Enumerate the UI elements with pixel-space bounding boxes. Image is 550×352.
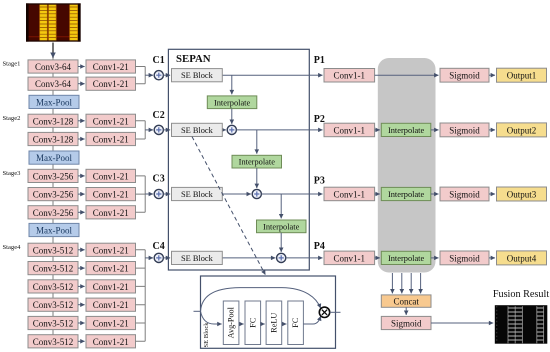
wire inset bypass curve <box>201 288 321 312</box>
svg-text:Sigmoid: Sigmoid <box>449 253 480 263</box>
arrow Conv3-256 to Conv1-21 (stage3 row2) <box>78 193 85 195</box>
svg-text:Output2: Output2 <box>507 125 537 135</box>
svg-text:Conv1-21: Conv1-21 <box>93 337 129 347</box>
arrow Conv3-128 to Conv1-21 (stage2 row2) <box>78 138 85 140</box>
dashed wire SE Block zoom-in <box>192 137 265 275</box>
sigmoid block (P3) <box>440 187 489 201</box>
svg-text:FC: FC <box>248 317 257 328</box>
inset block FC 2 <box>245 301 261 345</box>
wire bracket stage4 <box>136 250 146 341</box>
svg-text:Conv3-512: Conv3-512 <box>33 264 74 274</box>
arrow Conv1-1 to Interpolate (P4) <box>375 257 380 259</box>
svg-text:P3: P3 <box>314 175 325 186</box>
node C2 (add) <box>154 125 163 134</box>
conv block Conv3-256 (stage3 row3) <box>28 206 78 219</box>
svg-text:Sigmoid: Sigmoid <box>449 125 480 135</box>
arrow P4 to Conv1-1 <box>309 257 322 259</box>
svg-text:ReLU: ReLU <box>269 313 278 333</box>
svg-text:Sigmoid: Sigmoid <box>449 190 480 200</box>
svg-text:Conv1-21: Conv1-21 <box>93 282 129 292</box>
fusion sigmoid block <box>381 316 431 329</box>
arrow C2 to SE Block <box>163 129 170 131</box>
conv block Conv3-64 (stage1 row2) <box>28 77 78 90</box>
arrow bracket to C4 node <box>145 257 153 259</box>
svg-text:Conv3-512: Conv3-512 <box>33 245 74 255</box>
node C1 (add) <box>154 71 163 80</box>
arrow Interpolate to Sigmoid (P4) <box>431 257 439 259</box>
svg-text:Conv1-21: Conv1-21 <box>93 300 129 310</box>
svg-text:SEPAN: SEPAN <box>176 53 211 65</box>
arrow inset ReLU to next <box>282 323 287 325</box>
node add3 (SEPAN) <box>252 189 261 198</box>
output block Output3 <box>497 187 547 201</box>
arrow image to Stage1 <box>52 43 54 58</box>
sigmoid block (P4) <box>440 251 489 265</box>
conv block Conv1-21 (stage1 row2) <box>86 77 136 90</box>
conv block Conv3-128 (stage2 row2) <box>28 132 78 145</box>
arrow inset FC to next <box>261 323 265 325</box>
conv block Conv3-512 (stage4 row6) <box>28 335 78 348</box>
svg-text:Conv1-21: Conv1-21 <box>93 171 129 181</box>
svg-text:Conv1-1: Conv1-1 <box>334 190 366 200</box>
pool block Max-Pool 1 <box>29 95 79 108</box>
svg-text:Avg-Pool: Avg-Pool <box>227 306 236 338</box>
svg-text:Stage2: Stage2 <box>3 115 21 122</box>
svg-text:Sigmoid: Sigmoid <box>391 319 422 329</box>
conv block Conv1-1 (P4) <box>324 251 375 265</box>
conv block Conv3-64 (stage1 row1) <box>28 60 78 73</box>
wire bracket stage2 <box>136 121 146 139</box>
svg-text:Stage3: Stage3 <box>3 170 22 177</box>
conv block Conv1-21 (stage2 row1) <box>86 114 136 127</box>
inset block ReLU 3 <box>266 301 282 345</box>
wire SE1 output to P1 <box>222 74 309 76</box>
node C4 (add) <box>154 253 163 262</box>
svg-text:SE Block: SE Block <box>181 126 214 135</box>
svg-text:Conv1-1: Conv1-1 <box>334 71 366 81</box>
node multiply (scale) <box>319 307 329 317</box>
arrow Conv3-64 to Conv1-21 (stage1 row1) <box>78 66 85 68</box>
conv block Conv3-512 (stage4 row3) <box>28 280 78 293</box>
svg-text:Conv1-21: Conv1-21 <box>93 245 129 255</box>
output block Output2 <box>497 123 547 137</box>
wire branch row3 down <box>280 194 282 218</box>
svg-text:Interpolate: Interpolate <box>263 222 300 231</box>
arrow C1 to SE Block <box>163 74 170 76</box>
arrow Conv3-512 to Conv1-21 (stage4 row3) <box>78 285 85 287</box>
svg-text:SE Block: SE Block <box>181 71 214 80</box>
svg-text:P4: P4 <box>314 241 325 252</box>
arrow Interpolate1 to add2 <box>231 109 233 124</box>
wire add4 to P4 <box>286 257 310 259</box>
arrow bracket to C3 node <box>145 193 153 195</box>
svg-text:Conv3-128: Conv3-128 <box>33 116 74 126</box>
SE Block 2 (SEPAN) <box>172 123 223 136</box>
interpolate block 3 (SEPAN) <box>257 220 307 233</box>
sigmoid block (P2) <box>440 123 489 137</box>
conv block Conv1-21 (stage4 row1) <box>86 243 136 256</box>
arrow pill to Concat 1 <box>391 273 393 293</box>
svg-text:Conv3-512: Conv3-512 <box>33 337 74 347</box>
svg-text:Conv1-1: Conv1-1 <box>334 125 366 135</box>
svg-text:Conv3-256: Conv3-256 <box>33 171 74 181</box>
conv block Conv3-512 (stage4 row2) <box>28 262 78 275</box>
svg-text:SE Block: SE Block <box>181 254 214 263</box>
arrow Conv3-256 to Conv1-21 (stage3 row1) <box>78 175 85 177</box>
fusion result image <box>495 305 548 344</box>
SE Block 1 (SEPAN) <box>172 69 223 82</box>
svg-text:Conv1-21: Conv1-21 <box>93 135 129 145</box>
arrow SE2 to add2 <box>222 129 226 131</box>
arrow Conv3-512 to Conv1-21 (stage4 row6) <box>78 340 85 342</box>
svg-text:P1: P1 <box>314 55 325 66</box>
interpolate block (P3) <box>381 187 431 200</box>
svg-text:Conv1-21: Conv1-21 <box>93 190 129 200</box>
inset block Avg-Pool 1 <box>223 301 239 345</box>
interpolate block (P4) <box>381 251 431 264</box>
arrow Interpolate to Sigmoid (P2) <box>431 129 439 131</box>
arrow Conv1-1 row1 to Sigmoid <box>375 74 439 76</box>
svg-text:Interpolate: Interpolate <box>214 98 251 107</box>
svg-text:Interpolate: Interpolate <box>388 126 425 135</box>
arrow Sigmoid to Output4 <box>489 257 495 259</box>
arrow Conv3-512 to Conv1-21 (stage4 row4) <box>78 304 85 306</box>
conv block Conv3-256 (stage3 row1) <box>28 169 78 182</box>
svg-text:Conv1-21: Conv1-21 <box>93 62 129 72</box>
svg-text:Stage4: Stage4 <box>3 244 22 251</box>
arrow Interpolate to Sigmoid (P3) <box>431 193 439 195</box>
arrow C3 to SE Block <box>163 193 170 195</box>
svg-text:Conv1-21: Conv1-21 <box>93 264 129 274</box>
interpolate block 1 (SEPAN) <box>207 96 256 109</box>
svg-text:FC: FC <box>291 317 300 328</box>
svg-text:Conv3-512: Conv3-512 <box>33 300 74 310</box>
svg-text:Interpolate: Interpolate <box>388 190 425 199</box>
conv block Conv3-128 (stage2 row1) <box>28 114 78 127</box>
arrow Conv3-64 to Conv1-21 (stage1 row2) <box>78 83 85 85</box>
arrow Sigmoid to Output2 <box>489 129 495 131</box>
node C3 (add) <box>154 189 163 198</box>
arrow pill to Concat 2 <box>401 273 403 293</box>
arrow inset Avg-Pool to next <box>239 323 244 325</box>
gray feature-resize region (rounded) <box>378 58 436 273</box>
svg-text:Fusion Result: Fusion Result <box>493 289 549 300</box>
wire inset chain to multiply <box>303 316 320 324</box>
wire branch row1 down <box>231 75 233 94</box>
SE Block detail inset box <box>201 276 336 348</box>
SE Block 3 (SEPAN) <box>172 187 223 200</box>
conv block Conv1-21 (stage4 row2) <box>86 262 136 275</box>
svg-text:Conv1-21: Conv1-21 <box>93 208 129 218</box>
svg-text:Interpolate: Interpolate <box>388 254 425 263</box>
conv block Conv1-21 (stage4 row4) <box>86 298 136 311</box>
svg-text:Output1: Output1 <box>507 71 537 81</box>
arrow Conv3-512 to Conv1-21 (stage4 row2) <box>78 267 85 269</box>
arrow SE3 to add3 <box>222 193 251 195</box>
arrow pill to Concat 4 <box>420 273 422 293</box>
conv block Conv1-1 (P1) <box>324 69 375 83</box>
conv block Conv1-21 (stage2 row2) <box>86 132 136 145</box>
arrow Conv1-1 to Interpolate (P3) <box>375 193 380 195</box>
SEPAN container box <box>168 49 309 270</box>
conv block Conv1-21 (stage4 row5) <box>86 316 136 329</box>
svg-text:C4: C4 <box>152 241 164 252</box>
svg-text:Conv3-256: Conv3-256 <box>33 208 74 218</box>
arrow bracket to C2 node <box>145 129 153 131</box>
svg-text:C1: C1 <box>152 55 164 66</box>
arrow pill to Concat 3 <box>410 273 412 293</box>
arrow Conv3-512 to Conv1-21 (stage4 row5) <box>78 322 85 324</box>
svg-text:Concat: Concat <box>393 297 419 307</box>
svg-text:Conv3-512: Conv3-512 <box>33 319 74 329</box>
sigmoid block (P1) <box>440 68 489 82</box>
arrow bracket to C1 node <box>145 74 153 76</box>
wire bracket stage1 <box>136 67 146 84</box>
pool block Max-Pool 2 <box>29 151 79 164</box>
conv block Conv3-256 (stage3 row2) <box>28 188 78 201</box>
svg-text:Interpolate: Interpolate <box>239 158 276 167</box>
wire branch row2 down <box>256 130 258 154</box>
svg-text:Conv3-256: Conv3-256 <box>33 190 74 200</box>
conv block Conv1-21 (stage3 row1) <box>86 169 136 182</box>
svg-text:SE Block: SE Block <box>181 190 214 199</box>
arrow SE4 to add4 <box>222 257 275 259</box>
svg-text:Conv1-1: Conv1-1 <box>334 253 366 263</box>
wire add2 to P2 <box>236 129 309 131</box>
input fabric image <box>26 3 81 41</box>
arrow Concat to Sigmoid <box>405 307 407 315</box>
arrow Sigmoid to Fusion Result <box>431 322 493 324</box>
SE Block 4 (SEPAN) <box>172 251 223 264</box>
arrow P2 to Conv1-1 <box>309 129 322 131</box>
svg-text:C2: C2 <box>152 110 164 121</box>
conv block Conv1-21 (stage4 row6) <box>86 335 136 348</box>
wire inset input stub <box>194 310 201 312</box>
svg-text:Max-Pool: Max-Pool <box>36 97 72 107</box>
conv block Conv1-1 (P2) <box>324 123 375 137</box>
conv block Conv1-21 (stage3 row2) <box>86 188 136 201</box>
wire backbone spine <box>52 42 54 335</box>
interpolate block (P2) <box>381 123 431 136</box>
svg-text:C3: C3 <box>152 174 164 185</box>
arrow Sigmoid to Output3 <box>489 193 495 195</box>
svg-text:Conv1-21: Conv1-21 <box>93 79 129 89</box>
conv block Conv1-21 (stage3 row3) <box>86 206 136 219</box>
svg-text:SE Block: SE Block <box>203 322 210 348</box>
svg-text:Output4: Output4 <box>507 253 537 263</box>
arrow Interpolate2 to add3 <box>256 168 258 188</box>
svg-text:Max-Pool: Max-Pool <box>36 153 72 163</box>
conv block Conv3-512 (stage4 row5) <box>28 316 78 329</box>
arrow P1 to Conv1-1 <box>309 74 322 76</box>
svg-text:Conv3-128: Conv3-128 <box>33 135 74 145</box>
conv block Conv1-1 (P3) <box>324 187 375 201</box>
pool block Max-Pool 3 <box>29 223 79 236</box>
output block Output1 <box>497 68 547 82</box>
svg-text:Conv3-64: Conv3-64 <box>35 62 72 72</box>
conv block Conv1-21 (stage4 row3) <box>86 280 136 293</box>
arrow Sigmoid to Output1 <box>489 74 495 76</box>
svg-text:Conv1-21: Conv1-21 <box>93 116 129 126</box>
inset block FC 4 <box>288 301 304 345</box>
arrow C4 to SE Block <box>163 257 170 259</box>
arrow Conv3-256 to Conv1-21 (stage3 row3) <box>78 211 85 213</box>
interpolate block 2 (SEPAN) <box>232 155 282 168</box>
conv block Conv3-512 (stage4 row1) <box>28 243 78 256</box>
svg-text:Conv1-21: Conv1-21 <box>93 319 129 329</box>
node add2 (SEPAN) <box>227 125 236 134</box>
arrow Conv1-1 to Interpolate (P2) <box>375 129 380 131</box>
wire inset output stub <box>330 311 341 313</box>
conv block Conv3-512 (stage4 row4) <box>28 298 78 311</box>
wire bracket stage3 <box>136 176 146 212</box>
svg-text:Conv3-64: Conv3-64 <box>35 79 72 89</box>
arrow Conv3-128 to Conv1-21 (stage2 row1) <box>78 120 85 122</box>
arrow Conv3-512 to Conv1-21 (stage4 row1) <box>78 249 85 251</box>
arrow P3 to Conv1-1 <box>309 193 322 195</box>
wire add3 to P3 <box>261 193 309 195</box>
svg-text:Stage1: Stage1 <box>3 61 21 68</box>
svg-text:Max-Pool: Max-Pool <box>36 226 72 236</box>
output block Output4 <box>497 251 547 265</box>
arrow Interpolate3 to add4 <box>280 233 282 252</box>
svg-text:P2: P2 <box>314 114 325 125</box>
wire inset input down to chain <box>201 311 222 324</box>
svg-text:Sigmoid: Sigmoid <box>449 71 480 81</box>
node add4 (SEPAN) <box>277 253 286 262</box>
svg-text:Conv3-512: Conv3-512 <box>33 282 74 292</box>
conv block Conv1-21 (stage1 row1) <box>86 60 136 73</box>
concat block <box>381 295 431 307</box>
svg-text:Output3: Output3 <box>507 190 537 200</box>
